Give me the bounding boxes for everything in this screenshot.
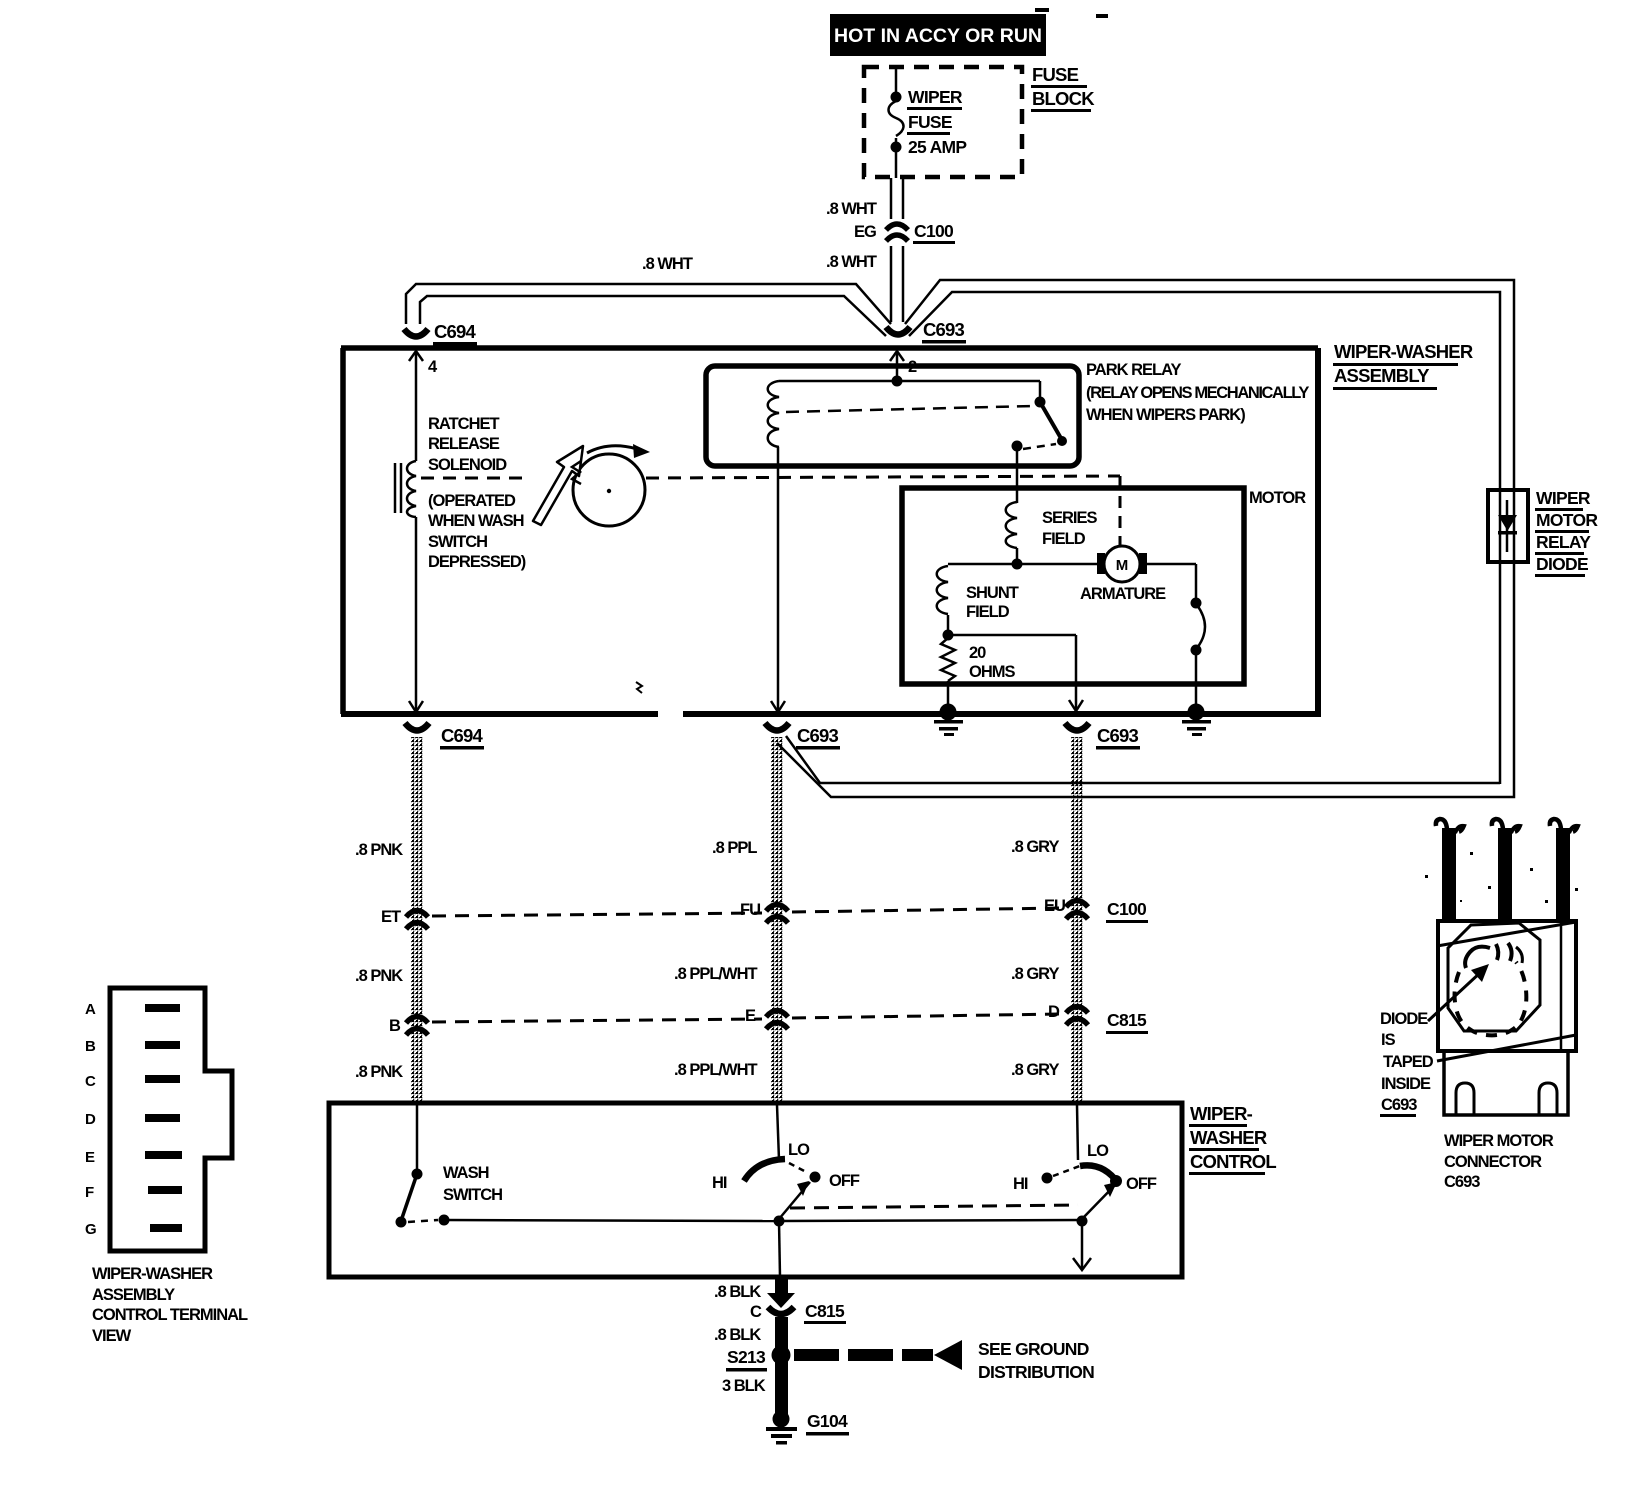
svg-text:MOTOR: MOTOR (1536, 510, 1598, 530)
wire park relay top rail (779, 381, 1040, 399)
svg-text:3 BLK: 3 BLK (722, 1377, 766, 1395)
wire dashed mechanical link solenoid to ratchet (421, 477, 530, 480)
connector C100 (EG) (886, 221, 955, 244)
svg-text:.8 PNK: .8 PNK (355, 841, 403, 859)
wiper-washer assembly control terminal view connector (85, 988, 248, 1345)
svg-text:FIELD: FIELD (966, 603, 1010, 621)
svg-text:TAPED: TAPED (1383, 1053, 1434, 1071)
armature circuit breaker arc (1191, 564, 1206, 711)
svg-text:.8 GRY: .8 GRY (1011, 838, 1059, 856)
wire dashed mechanical link ratchet to armature (646, 476, 1120, 546)
svg-text:WIPER: WIPER (1536, 488, 1591, 508)
svg-text:WHEN WASH: WHEN WASH (428, 512, 524, 530)
svg-text:RELAY: RELAY (1536, 532, 1591, 552)
svg-text:WIPER-: WIPER- (1190, 1103, 1253, 1124)
svg-text:C100: C100 (914, 221, 954, 241)
ratchet release solenoid L1 (395, 415, 526, 571)
svg-text:SHUNT: SHUNT (966, 584, 1019, 602)
armature M (1017, 546, 1196, 603)
svg-text:M: M (1116, 557, 1129, 574)
wiper switch section 1 (LO HI OFF) (712, 1105, 860, 1227)
svg-text:ET: ET (381, 908, 401, 926)
node series/shunt junction (1012, 559, 1023, 570)
wire see ground distribution (794, 1339, 1094, 1382)
svg-text:S213: S213 (727, 1347, 766, 1367)
connector C694 top (404, 321, 477, 346)
svg-text:C815: C815 (1107, 1010, 1147, 1030)
svg-text:C694: C694 (434, 321, 477, 342)
wire stippled .8 PPL C693 to control (771, 737, 783, 1105)
fuse block dashed box (864, 64, 1095, 177)
svg-text:A: A (85, 1001, 96, 1018)
wire C693 pin 2 into park relay (896, 351, 899, 381)
node park relay feed junction (892, 376, 903, 387)
svg-text:.8 GRY: .8 GRY (1011, 1061, 1059, 1079)
svg-text:C693: C693 (923, 319, 965, 340)
svg-text:(RELAY OPENS MECHANICALLY: (RELAY OPENS MECHANICALLY (1086, 384, 1309, 402)
svg-text:C694: C694 (441, 725, 484, 746)
svg-text:G104: G104 (807, 1411, 848, 1431)
svg-text:E: E (85, 1149, 95, 1166)
svg-text:HOT IN ACCY OR RUN: HOT IN ACCY OR RUN (834, 25, 1042, 47)
svg-text:DIODE: DIODE (1536, 554, 1588, 574)
svg-text:.8 WHT: .8 WHT (826, 253, 877, 271)
wire .8 WHT fuse to C100 (826, 178, 903, 241)
svg-text:SOLENOID: SOLENOID (428, 456, 507, 474)
svg-text:C: C (750, 1303, 762, 1321)
svg-text:WIPER-WASHER: WIPER-WASHER (1334, 341, 1473, 362)
wiper switch section 2 (LO HI OFF) (1013, 1105, 1157, 1227)
svg-text:F: F (85, 1184, 94, 1201)
svg-text:SERIES: SERIES (1042, 509, 1098, 527)
wire shunt junction to C693 bottom (948, 635, 1083, 711)
wire .8 BLK C815 to S213 (714, 1317, 788, 1355)
svg-text:EU: EU (1044, 897, 1065, 915)
svg-text:WIPER: WIPER (908, 87, 963, 107)
wire 3 BLK S213 to G104 (722, 1360, 788, 1415)
wire dashed relay coil to contacts (786, 406, 1034, 412)
wire .8 WHT channel left branch to C694 (406, 284, 891, 336)
wire relay contact to series field (1016, 446, 1019, 503)
svg-text:B: B (85, 1038, 96, 1055)
svg-text:LO: LO (788, 1141, 810, 1159)
svg-text:DISTRIBUTION: DISTRIBUTION (978, 1362, 1094, 1382)
svg-text:RELEASE: RELEASE (428, 435, 500, 453)
park relay coil (768, 381, 779, 447)
wire .8 WHT channel right branch to diode (905, 280, 1514, 790)
note diode is taped inside C693 (1380, 1010, 1434, 1117)
svg-text:.8 BLK: .8 BLK (714, 1283, 761, 1301)
wiper motor connector C693 body (1425, 852, 1578, 907)
svg-text:ASSEMBLY: ASSEMBLY (92, 1286, 175, 1304)
svg-text:.8 PNK: .8 PNK (355, 1063, 403, 1081)
node HOT IN ACCY OR RUN feed (830, 8, 1108, 56)
wire C694 pin 4 down to C694 bottom (409, 351, 423, 712)
resistor 20 OHMS (941, 638, 1015, 707)
svg-text:WASHER: WASHER (1190, 1127, 1267, 1148)
svg-text:C693: C693 (797, 725, 839, 746)
svg-text:C693: C693 (1381, 1096, 1417, 1114)
svg-text:C815: C815 (805, 1301, 845, 1321)
svg-text:DIODE: DIODE (1380, 1010, 1428, 1028)
wire .8 WHT C100 to C693 (642, 246, 903, 322)
svg-text:SEE GROUND: SEE GROUND (978, 1339, 1089, 1359)
wire dashed switch linkage (790, 1205, 1078, 1208)
connector C815 (C) (768, 1301, 846, 1324)
svg-text:IS: IS (1381, 1031, 1396, 1049)
svg-text:WIPER-WASHER: WIPER-WASHER (92, 1265, 213, 1283)
svg-text:OFF: OFF (1126, 1175, 1157, 1193)
connector row C815 terminals B E D (389, 1003, 1148, 1035)
connector C693 top (886, 319, 966, 344)
svg-text:PARK RELAY: PARK RELAY (1086, 361, 1182, 379)
svg-text:HI: HI (712, 1174, 727, 1192)
svg-text:CONTROL: CONTROL (1190, 1151, 1276, 1172)
wire stippled .8 PNK C694 to control (411, 737, 423, 1105)
node stray mark (636, 682, 642, 693)
svg-text:B: B (389, 1017, 401, 1035)
wire .8 WHT return channel C693 to diode (777, 736, 1514, 797)
ground motor case right (1182, 704, 1211, 737)
wire stippled .8 GRY C693 to control (1071, 737, 1083, 1105)
wire wash switch common rail (444, 1220, 779, 1221)
svg-text:C100: C100 (1107, 899, 1147, 919)
svg-text:20: 20 (969, 644, 986, 662)
svg-text:.8 PPL/WHT: .8 PPL/WHT (674, 965, 758, 983)
svg-text:VIEW: VIEW (92, 1327, 132, 1345)
wiper motor connector C693 lower shell (1444, 1051, 1568, 1191)
svg-text:C693: C693 (1097, 725, 1139, 746)
wiper-washer control box (329, 1103, 1276, 1277)
motor box (902, 488, 1306, 684)
svg-text:WHEN WIPERS PARK): WHEN WIPERS PARK) (1086, 406, 1245, 424)
svg-text:.8 WHT: .8 WHT (642, 255, 693, 273)
svg-text:.8 BLK: .8 BLK (714, 1326, 761, 1344)
svg-text:25 AMP: 25 AMP (908, 137, 967, 157)
svg-text:RATCHET: RATCHET (428, 415, 500, 433)
svg-text:CONNECTOR: CONNECTOR (1444, 1153, 1542, 1171)
wire .8 BLK control to C815 (714, 1221, 795, 1321)
svg-text:.8 PPL/WHT: .8 PPL/WHT (674, 1061, 758, 1079)
series field coil (1006, 502, 1098, 564)
svg-text:LO: LO (1087, 1142, 1109, 1160)
svg-text:FU: FU (740, 901, 760, 919)
wiper motor connector C693 pigtail wires (1436, 819, 1578, 921)
svg-text:FUSE: FUSE (908, 112, 952, 132)
park relay switch contacts (1012, 397, 1068, 452)
svg-text:SWITCH: SWITCH (428, 533, 487, 551)
svg-text:.8 PPL: .8 PPL (712, 839, 757, 857)
svg-text:EG: EG (854, 223, 876, 241)
svg-text:OHMS: OHMS (969, 663, 1015, 681)
svg-text:FUSE: FUSE (1032, 64, 1079, 85)
svg-text:D: D (85, 1111, 96, 1128)
svg-text:BLOCK: BLOCK (1032, 88, 1095, 109)
svg-text:SWITCH: SWITCH (443, 1186, 502, 1204)
svg-text:.8 GRY: .8 GRY (1011, 965, 1059, 983)
svg-text:INSIDE: INSIDE (1381, 1075, 1431, 1093)
node splice S213 (726, 1346, 791, 1372)
svg-text:WIPER MOTOR: WIPER MOTOR (1444, 1132, 1554, 1150)
svg-text:ARMATURE: ARMATURE (1080, 585, 1166, 603)
shunt field coil (937, 564, 1019, 632)
svg-text:FIELD: FIELD (1042, 530, 1086, 548)
svg-text:(OPERATED: (OPERATED (428, 492, 516, 510)
ratchet mechanism symbol (533, 444, 650, 526)
ground G104 (766, 1411, 849, 1445)
ground motor case left (934, 704, 963, 737)
svg-text:MOTOR: MOTOR (1249, 489, 1306, 507)
svg-text:G: G (85, 1221, 97, 1238)
svg-text:.8 PNK: .8 PNK (355, 967, 403, 985)
svg-text:ASSEMBLY: ASSEMBLY (1334, 365, 1430, 386)
node 4 (C694 pin) (409, 351, 438, 376)
svg-text:D: D (1048, 1003, 1060, 1021)
connector C694 bottom (405, 723, 484, 750)
wash switch (396, 1105, 503, 1228)
wiper-washer assembly box (341, 341, 1473, 714)
connector row C100 terminals ET FU EU (381, 897, 1148, 929)
node shunt/resistor junction (943, 630, 954, 641)
wire relay coil to C693 bottom (777, 447, 780, 712)
svg-text:WASH: WASH (443, 1164, 489, 1182)
connector C693 bottom right (1065, 723, 1140, 750)
park relay K1 box (706, 361, 1309, 466)
svg-text:HI: HI (1013, 1175, 1028, 1193)
svg-text:C693: C693 (1444, 1173, 1480, 1191)
svg-text:OFF: OFF (829, 1172, 860, 1190)
wire switch common rail right (779, 1220, 1082, 1221)
svg-text:CONTROL TERMINAL: CONTROL TERMINAL (92, 1306, 248, 1324)
wire fuse feed (895, 67, 898, 99)
connector C693 bottom left (765, 723, 840, 750)
wiper motor relay diode CR1 (1488, 488, 1598, 577)
svg-text:.8 WHT: .8 WHT (826, 200, 877, 218)
wiper fuse 25 AMP (889, 87, 968, 178)
svg-text:E: E (745, 1007, 756, 1025)
node 2 (C693 pin) (890, 351, 917, 376)
svg-text:C: C (85, 1073, 96, 1090)
svg-text:DEPRESSED): DEPRESSED) (428, 553, 526, 571)
wire section2 to box edge (1073, 1221, 1091, 1270)
